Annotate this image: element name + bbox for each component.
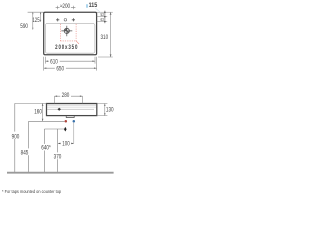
diamond marker on mid line	[57, 108, 61, 111]
slab water line	[47, 106, 96, 108]
845 height line	[28, 121, 30, 172]
slab outline (front view)	[47, 104, 97, 116]
dim 650	[44, 57, 97, 71]
label 900	[10, 132, 22, 139]
svg-text:845: 845	[21, 150, 29, 157]
svg-text:310: 310	[100, 34, 108, 41]
640 height line	[43, 129, 45, 173]
dim 130	[97, 104, 108, 116]
blue point	[73, 120, 76, 123]
basin outer outline (top view)	[44, 12, 97, 55]
tap hole left cross	[56, 18, 59, 21]
dim 125 line	[40, 12, 42, 22]
svg-text:640*: 640*	[41, 145, 51, 152]
label 370	[52, 152, 63, 159]
label 640*	[39, 144, 52, 151]
dim 590 line	[32, 12, 34, 29]
svg-text:650: 650	[56, 66, 64, 73]
slab mid line	[47, 108, 94, 110]
svg-text:125: 125	[32, 18, 39, 25]
svg-text:160: 160	[34, 109, 42, 116]
floor line	[7, 172, 114, 174]
svg-text:* For taps mounted on counter: * For taps mounted on counter top	[2, 189, 62, 194]
small dim chain 53/63	[104, 11, 106, 24]
svg-text:130: 130	[106, 107, 114, 114]
diamond arrow	[64, 127, 67, 132]
dim 610	[46, 57, 96, 64]
svg-text:≈200: ≈200	[60, 4, 70, 11]
dim approx200 (tap hole spacing)	[56, 6, 76, 10]
drain symbol (top view)	[61, 26, 72, 37]
svg-text:280: 280	[62, 92, 70, 99]
tap hole right cross	[72, 18, 75, 21]
drain notch under slab	[66, 116, 74, 118]
blue leader	[95, 8, 100, 13]
label 845	[20, 148, 30, 155]
svg-text:100: 100	[62, 141, 69, 148]
blue label 115	[86, 4, 88, 8]
svg-text:900: 900	[12, 134, 20, 141]
red dashed cut-out outline	[60, 24, 76, 41]
svg-text:200x350: 200x350	[55, 44, 78, 51]
900 height line	[14, 103, 16, 172]
370 height line	[57, 129, 59, 173]
red leader line	[76, 41, 79, 44]
svg-text:370: 370	[54, 154, 62, 161]
slab inner top line	[47, 104, 96, 106]
blue point drop line	[73, 123, 75, 144]
svg-text:610: 610	[50, 59, 58, 66]
red point	[65, 120, 68, 123]
extension line top-left	[28, 11, 44, 13]
dim 310 line	[110, 12, 112, 57]
tap supply line	[44, 128, 64, 130]
svg-text:63: 63	[100, 17, 103, 22]
label 100	[61, 140, 71, 146]
tap hole centre circle	[64, 19, 67, 22]
svg-text:590: 590	[20, 23, 28, 30]
right extension lines	[97, 12, 113, 57]
drain outlet line	[29, 120, 65, 122]
dim 160	[42, 103, 44, 121]
dim 280	[55, 96, 83, 103]
extension line slab top to 900 line	[15, 102, 47, 104]
dim 100	[58, 142, 74, 144]
basin inner bowl outline (top view)	[45, 24, 95, 54]
